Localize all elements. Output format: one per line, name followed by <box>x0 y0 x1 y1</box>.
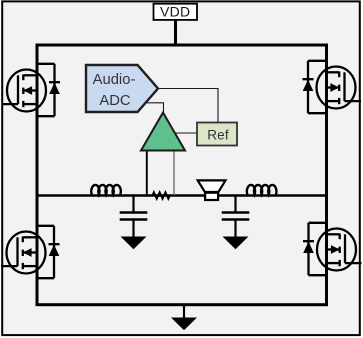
svg-text:Ref: Ref <box>207 128 229 143</box>
svg-text:ADC: ADC <box>99 93 131 109</box>
svg-text:Audio-: Audio- <box>93 72 136 88</box>
svg-text:VDD: VDD <box>160 4 190 20</box>
